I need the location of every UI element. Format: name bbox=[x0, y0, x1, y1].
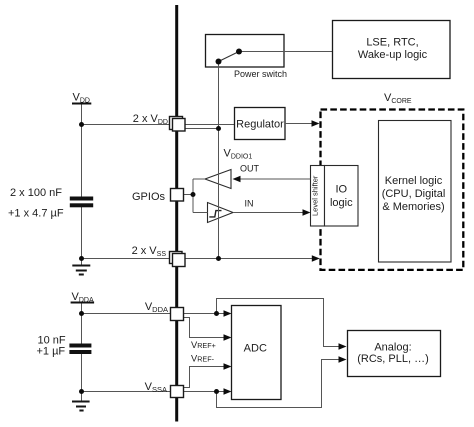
svg-text:Power switch: Power switch bbox=[234, 69, 287, 79]
svg-text:VREF+: VREF+ bbox=[191, 340, 216, 350]
svg-text:VREF-: VREF- bbox=[191, 354, 215, 364]
svg-text:ADC: ADC bbox=[244, 343, 267, 355]
svg-text:2 x 100 nF: 2 x 100 nF bbox=[10, 187, 62, 199]
svg-text:IO: IO bbox=[335, 184, 347, 196]
svg-text:Regulator: Regulator bbox=[236, 119, 284, 131]
svg-text:OUT: OUT bbox=[240, 164, 260, 174]
svg-text:IN: IN bbox=[245, 199, 254, 209]
svg-text:+1 µF: +1 µF bbox=[37, 346, 66, 358]
svg-text:& Memories): & Memories) bbox=[382, 201, 444, 213]
svg-text:Wake-up logic: Wake-up logic bbox=[358, 49, 428, 61]
svg-text:Analog:: Analog: bbox=[374, 342, 411, 354]
svg-text:+1 x 4.7 µF: +1 x 4.7 µF bbox=[8, 208, 64, 220]
svg-text:LSE, RTC,: LSE, RTC, bbox=[366, 37, 418, 49]
svg-text:(RCs, PLL, …): (RCs, PLL, …) bbox=[357, 353, 429, 365]
svg-text:logic: logic bbox=[330, 197, 353, 209]
svg-text:GPIOs: GPIOs bbox=[132, 191, 166, 203]
svg-text:Level shifter: Level shifter bbox=[310, 175, 319, 216]
svg-text:Kernel logic: Kernel logic bbox=[385, 175, 443, 187]
svg-text:(CPU, Digital: (CPU, Digital bbox=[382, 188, 446, 200]
